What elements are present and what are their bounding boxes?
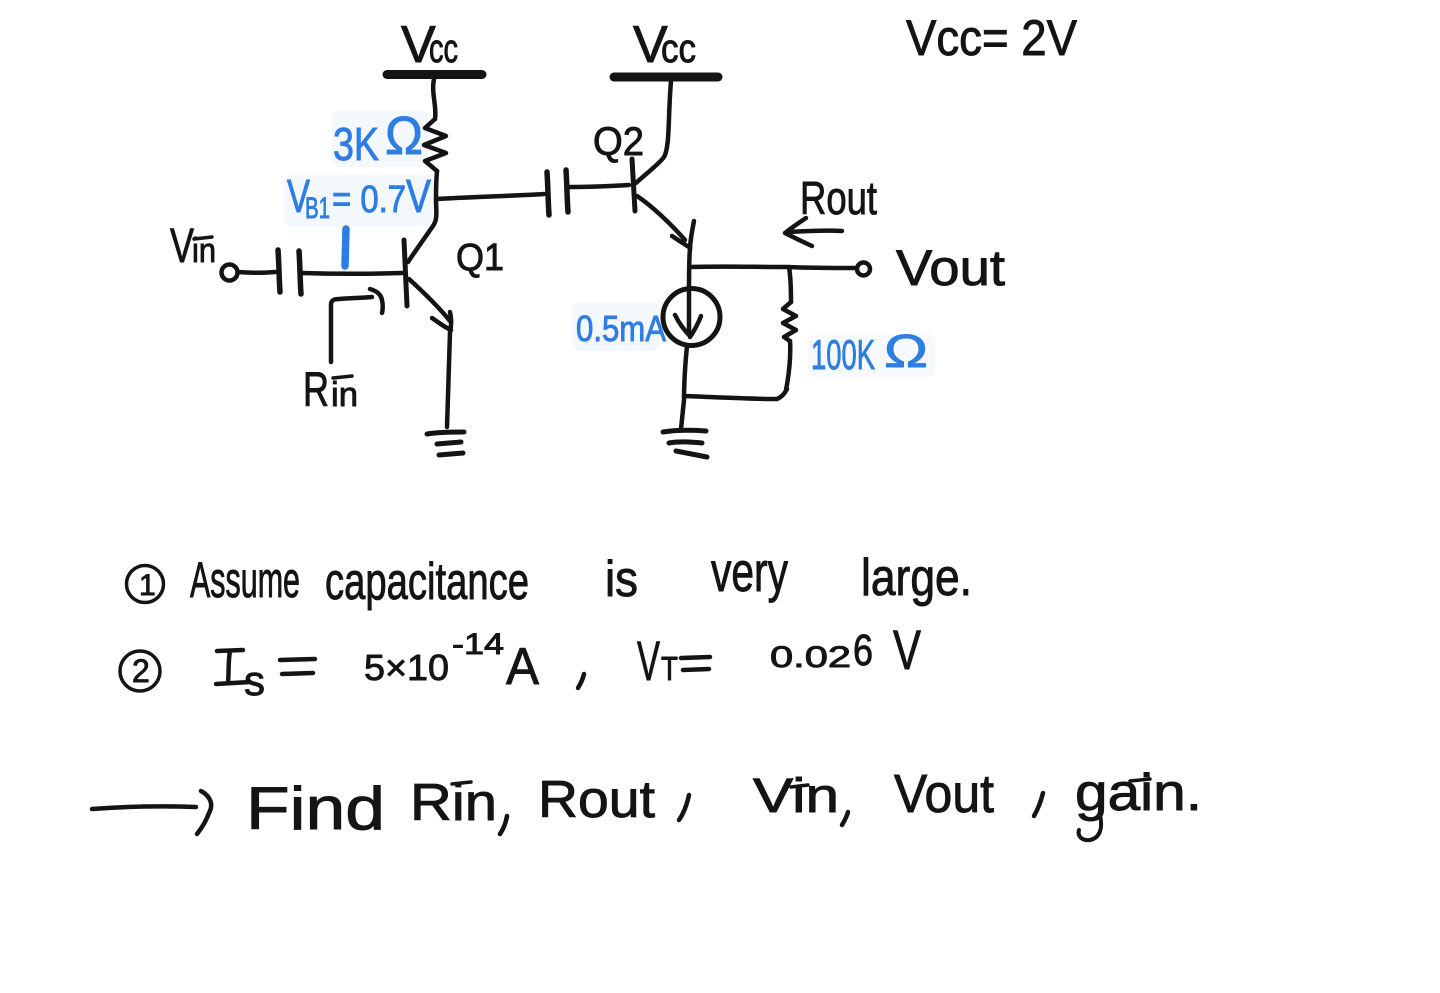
label Rout with arrow	[800, 172, 877, 224]
wire current source to ground	[681, 346, 687, 429]
label VB1 = 0.7V (blue)	[287, 170, 431, 225]
note 1 word capacitance	[325, 553, 529, 611]
svg-text:Vout: Vout	[896, 240, 1005, 296]
transistor Q2 collector stroke and wire to VCC bar	[636, 81, 671, 183]
svg-text:Q1: Q1	[456, 237, 504, 279]
note 1 circled number	[127, 566, 164, 603]
coupling capacitor C2 plates	[547, 170, 568, 215]
highlight wash behind VB1 label	[284, 175, 436, 226]
input terminal circle Vin	[222, 265, 238, 281]
svg-text:V: V	[893, 618, 921, 681]
current source I1 arrowhead	[675, 315, 701, 337]
ground (below current source)	[663, 430, 707, 457]
resistor RL top lead from output node	[789, 267, 791, 302]
overbar on Rin (find list)	[452, 782, 471, 784]
transistor Q2 emitter stroke with arrow	[637, 196, 694, 250]
overbar on Rin label	[333, 376, 352, 378]
power rail bar VCC (stage 2)	[614, 73, 718, 82]
svg-text:very: very	[711, 540, 788, 603]
find item Vin	[753, 770, 839, 823]
svg-text:s: s	[244, 657, 265, 704]
find arrow	[92, 791, 211, 834]
label Vcc (stage 2 rail)	[633, 16, 696, 74]
wire node (Q1 collector) to coupling capacitor	[437, 194, 544, 199]
descender loop of g in gain	[1079, 815, 1102, 840]
label 100K ohm (blue)	[811, 325, 928, 378]
overbar on Vin label	[194, 237, 212, 239]
note 2 equals sign	[280, 659, 315, 674]
note 2 equals sign (VT)	[681, 657, 710, 670]
wire bottom return (current source to RL bottom)	[684, 389, 787, 399]
comma after Rout	[679, 795, 689, 820]
note 1 word very	[711, 540, 788, 603]
note 2 exponent -14	[452, 628, 504, 661]
blue tick mark on base wire	[345, 229, 346, 266]
svg-text:VT: VT	[637, 629, 678, 692]
svg-text:large.: large.	[861, 549, 972, 607]
svg-text:Q2: Q2	[593, 120, 644, 164]
note 2 symbol VT	[637, 629, 678, 692]
svg-text:Rout: Rout	[800, 172, 877, 224]
svg-text:A: A	[506, 638, 539, 696]
svg-text:gain.: gain.	[1075, 764, 1202, 822]
note 2 unit V	[893, 618, 921, 681]
svg-text:Vin: Vin	[753, 770, 839, 823]
wire input terminal to capacitor C1	[238, 270, 275, 275]
label Q2	[593, 120, 644, 164]
transistor Q1 base bar	[404, 240, 407, 306]
label 3K ohm (blue)	[333, 106, 423, 170]
svg-text:Rout: Rout	[538, 771, 656, 829]
resistor R1 (3K ohm, collector load of Q1)	[424, 119, 446, 171]
svg-text:Vcc: Vcc	[633, 16, 696, 74]
wire capacitor C1 to Q1 base	[302, 271, 402, 276]
svg-text:Vcc= 2V: Vcc= 2V	[906, 10, 1078, 66]
svg-text:capacitance: capacitance	[325, 553, 529, 611]
label Vout	[896, 240, 1005, 296]
find item gain.	[1075, 764, 1202, 822]
ground (Q1 emitter)	[427, 432, 464, 455]
note 2 unit A	[506, 638, 539, 696]
svg-text:Vout: Vout	[894, 764, 994, 824]
find item Rout	[538, 771, 656, 829]
svg-text:Find: Find	[246, 775, 385, 842]
arrow Rin (bent, pointing right)	[331, 289, 383, 362]
svg-text:0.026: 0.026	[770, 626, 873, 675]
svg-text:-14: -14	[452, 628, 504, 661]
svg-text:Assume: Assume	[190, 552, 300, 608]
label Rin	[303, 364, 358, 417]
input capacitor C1 plates	[278, 250, 301, 294]
arrow Rout (pointing left)	[785, 218, 842, 246]
svg-text:Rin: Rin	[303, 364, 358, 417]
wire output node line to terminal	[690, 267, 855, 268]
wire resistor R1 to node B2 and down to Q1 collector	[408, 171, 437, 262]
note 1 word Assume	[190, 552, 300, 608]
comma after Rin	[500, 816, 507, 834]
label Vcc = 2V (top right)	[906, 10, 1078, 66]
svg-text:is: is	[605, 551, 638, 607]
note 2 circled number	[120, 651, 160, 691]
output terminal circle	[857, 263, 870, 276]
label Q1	[456, 237, 504, 279]
svg-text:1: 1	[139, 569, 156, 602]
overbar on Vin (find list)	[791, 785, 808, 787]
current source I1 (0.5 mA) circle	[663, 289, 720, 346]
wire Q2 emitter to output node and into current source	[689, 248, 690, 334]
svg-text:5×10: 5×10	[364, 647, 449, 688]
wire capacitor C2 to Q2 base	[570, 185, 629, 187]
svg-text:VB1= 0.7V: VB1= 0.7V	[287, 170, 431, 225]
label 0.5mA (blue)	[576, 308, 666, 349]
overbar on gain (find list)	[1130, 779, 1150, 781]
label Vin	[170, 220, 216, 273]
note 1 word large.	[861, 549, 972, 607]
highlight wash behind 100K label	[808, 334, 935, 377]
find word Find	[246, 775, 385, 842]
transistor Q1 emitter stroke with arrow	[409, 279, 451, 330]
svg-text:Vcc: Vcc	[401, 16, 458, 74]
power rail bar VCC (stage 1)	[387, 70, 482, 79]
svg-text:0.5mA: 0.5mA	[576, 308, 666, 349]
note 2 value 5x10	[364, 647, 449, 688]
svg-text:100KΩ: 100KΩ	[811, 325, 928, 378]
transistor Q2 base bar	[632, 159, 635, 211]
svg-text:Vin: Vin	[170, 220, 216, 273]
note 2 comma	[578, 674, 584, 688]
find item Rin	[410, 774, 497, 832]
label Vcc (stage 1 rail)	[401, 16, 458, 74]
svg-text:2: 2	[132, 653, 150, 689]
note 1 word is	[605, 551, 638, 607]
note 2 symbol Is (I with serifs, subscript s)	[216, 650, 265, 704]
highlight wash behind 0.5mA label	[572, 302, 660, 351]
resistor RL (100K ohm) zigzag	[783, 302, 796, 341]
wire VCC bar to resistor R1	[433, 79, 435, 119]
comma after Vout	[1034, 793, 1043, 816]
highlight wash behind 3K label	[332, 110, 428, 167]
wire Q1 emitter to ground	[447, 312, 451, 427]
find item Vout	[894, 764, 994, 824]
comma after Vin	[842, 812, 848, 825]
resistor RL bottom lead	[786, 341, 790, 390]
note 2 value 0.026	[770, 626, 873, 675]
